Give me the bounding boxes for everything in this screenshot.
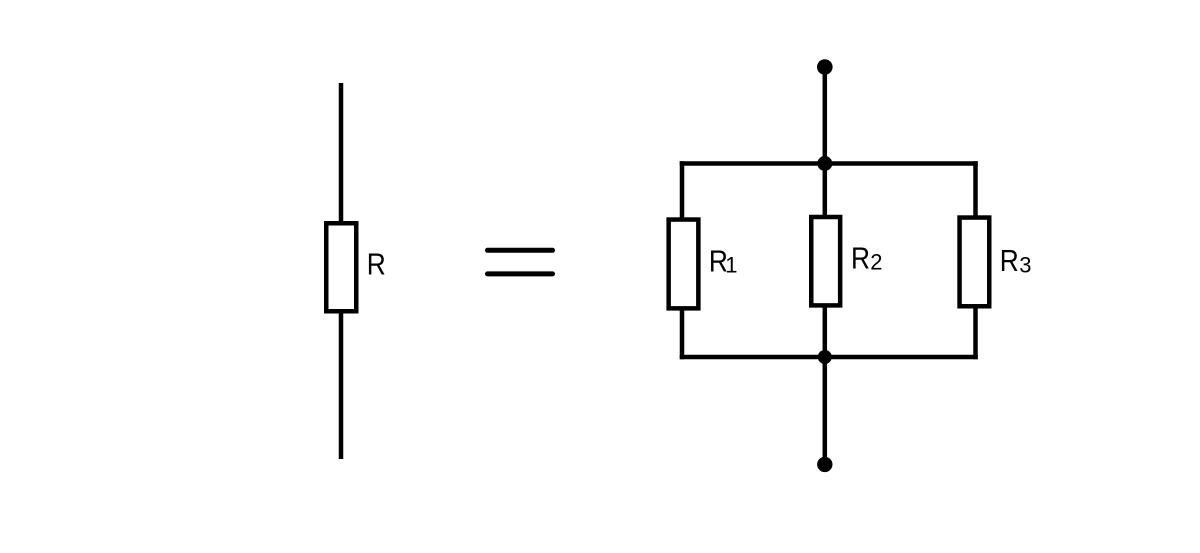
resistor R1 <box>669 220 699 309</box>
wire: bottom lead of resistor R <box>339 311 344 459</box>
label R3 <box>1000 244 1032 278</box>
wire: top lead of resistor R <box>339 83 344 223</box>
svg-text:R: R <box>367 248 386 282</box>
wire: bottom rail <box>680 355 978 360</box>
svg-text:R: R <box>1000 244 1019 278</box>
label R2 <box>851 242 882 276</box>
resistor R2 <box>811 217 840 305</box>
wire: top terminal to top rail <box>823 67 828 166</box>
resistor R3 <box>960 218 990 307</box>
wire: middle branch bottom lead (R2 through bottom rail to terminal) <box>823 305 828 464</box>
node: top terminal dot <box>817 59 833 75</box>
svg-text:2: 2 <box>870 250 882 275</box>
wire: right branch top lead <box>973 161 978 217</box>
node: bottom junction dot <box>818 350 832 364</box>
label R <box>367 248 386 282</box>
wire: right branch bottom lead <box>973 306 978 359</box>
resistor R <box>326 223 356 311</box>
node: top junction dot <box>817 156 832 171</box>
svg-text:1: 1 <box>725 252 737 277</box>
label R1 <box>709 244 738 278</box>
wire: middle branch top lead (rail to R2) <box>823 164 828 218</box>
equals sign (equivalence) <box>488 250 553 274</box>
wire: top rail <box>680 161 978 166</box>
svg-text:R: R <box>851 242 870 276</box>
wire: left branch bottom lead <box>680 309 685 360</box>
svg-text:3: 3 <box>1019 252 1031 277</box>
wire: left branch top lead <box>680 161 685 219</box>
node: bottom terminal dot <box>817 457 832 472</box>
